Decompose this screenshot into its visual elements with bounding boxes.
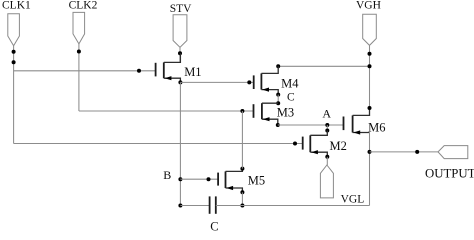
svg-text:A: A bbox=[322, 107, 331, 121]
wire CLK1 to M2 gate bbox=[14, 143, 303, 145]
transistor M6 bbox=[344, 108, 370, 135]
wire output vertical bbox=[369, 133, 371, 206]
junction dot M5 drain bbox=[240, 167, 244, 171]
junction dot M2 source bbox=[325, 155, 329, 159]
wire M5 drain to M3 gate line bbox=[241, 111, 243, 169]
svg-text:VGH: VGH bbox=[356, 0, 381, 12]
svg-text:B: B bbox=[163, 168, 171, 182]
junction dot M1 source bbox=[178, 80, 182, 84]
wire CLK2 to M3 gate bbox=[79, 110, 254, 112]
junction dot VGH line right bbox=[368, 64, 372, 68]
wire B to M5 gate bbox=[180, 178, 218, 180]
wire CLK1 to M1 gate bbox=[14, 70, 156, 72]
junction dot STV bbox=[178, 51, 182, 55]
junction dot M3 gate branch bbox=[240, 109, 244, 113]
junction dot M3 drain bbox=[276, 101, 280, 105]
junction dot output bbox=[368, 150, 372, 154]
junction dot CLK1 lower bbox=[12, 60, 16, 64]
terminal pad VGL bbox=[320, 165, 333, 198]
junction dot VGH bbox=[368, 52, 372, 56]
terminal pad VGH bbox=[363, 14, 377, 45]
wire M5 source down bbox=[241, 192, 243, 205]
junction dot B bbox=[178, 177, 182, 181]
junction dot on M1 gate wire bbox=[137, 69, 141, 73]
svg-text:C: C bbox=[287, 92, 295, 104]
junction dot M4 gate bbox=[247, 80, 251, 84]
terminal pad CLK2 bbox=[73, 12, 85, 44]
svg-text:M1: M1 bbox=[184, 65, 201, 79]
junction dot M5 source at bottom line bbox=[240, 204, 244, 208]
wire CLK1 stem bbox=[13, 46, 15, 144]
wire bottom line right segment bbox=[216, 205, 370, 207]
terminal pad OUTPUT bbox=[438, 146, 468, 159]
wire VGH to M4 drain bbox=[278, 65, 369, 67]
svg-text:M5: M5 bbox=[248, 174, 265, 188]
terminal pad CLK1 bbox=[8, 14, 20, 46]
svg-text:CLK1: CLK1 bbox=[2, 0, 31, 12]
wire A drop bbox=[326, 125, 328, 131]
wire bottom line left segment bbox=[180, 205, 209, 207]
svg-text:M6: M6 bbox=[368, 120, 385, 134]
transistor M1 bbox=[156, 53, 181, 82]
transistor M4 bbox=[254, 66, 279, 94]
svg-text:OUTPUT: OUTPUT bbox=[425, 167, 474, 181]
transistor M3 bbox=[254, 103, 279, 125]
svg-text:M2: M2 bbox=[330, 139, 347, 153]
junction dot M5 gate bbox=[207, 177, 211, 181]
wire STV stem bbox=[179, 47, 181, 62]
junction dot A upper bbox=[325, 123, 329, 127]
svg-text:STV: STV bbox=[170, 3, 192, 15]
wire M1 source to M4 gate bbox=[180, 81, 253, 83]
junction dot CLK1 upper bbox=[12, 50, 16, 54]
wire M2 source to VGL bbox=[326, 157, 328, 165]
wire output horizontal bbox=[370, 151, 439, 153]
terminal pad STV bbox=[173, 15, 187, 48]
svg-text:M3: M3 bbox=[277, 105, 294, 119]
transistor M2 bbox=[303, 131, 328, 157]
junction dot M2 gate bbox=[293, 142, 297, 146]
wire VGH stem bbox=[369, 45, 371, 108]
junction dot M3 source bbox=[276, 123, 280, 127]
junction dot M4 source bbox=[276, 93, 280, 97]
capacitor C bbox=[210, 196, 216, 213]
junction dot CLK2 bbox=[77, 50, 81, 54]
wire M4 source to M3 drain bbox=[277, 95, 279, 104]
svg-text:VGL: VGL bbox=[341, 194, 365, 206]
junction dot A lower bbox=[325, 129, 329, 133]
junction dot M6 drain bbox=[368, 106, 372, 110]
wire node A to M6 gate bbox=[278, 124, 344, 126]
transistor M5 bbox=[218, 169, 242, 193]
wire CLK2 stem bbox=[78, 44, 80, 111]
junction dot bottom line left bbox=[178, 204, 182, 208]
junction dot VGH line left bbox=[276, 64, 280, 68]
junction dot output line bbox=[415, 150, 419, 154]
wire B vertical bbox=[179, 82, 181, 205]
svg-text:CLK2: CLK2 bbox=[69, 0, 98, 12]
svg-text:C: C bbox=[210, 220, 218, 231]
svg-text:M4: M4 bbox=[281, 76, 299, 90]
junction dot M5 source bbox=[240, 190, 244, 194]
